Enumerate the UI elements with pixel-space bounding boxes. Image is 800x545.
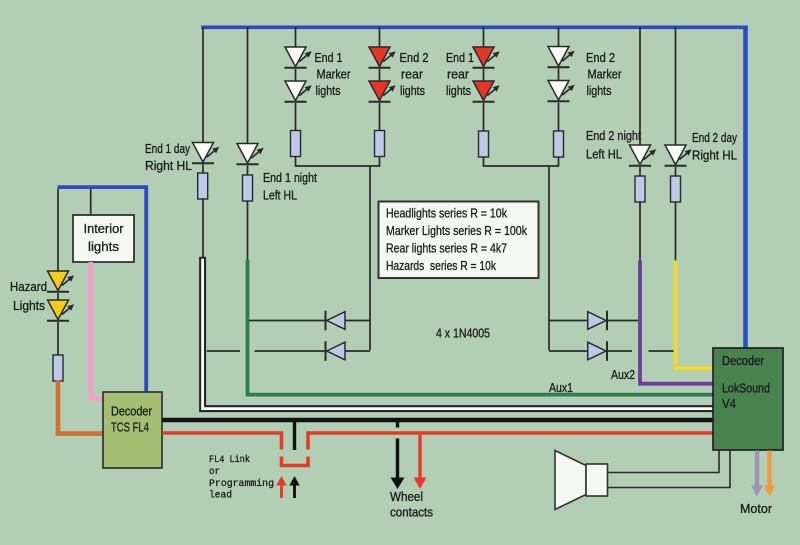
label Interior (84, 221, 125, 236)
arrow black FL4 link (289, 476, 299, 498)
label Left HL (End 2 night) (586, 147, 622, 162)
svg-text:Decoder: Decoder (111, 404, 153, 419)
label Right HL (End 1 day) (145, 158, 192, 173)
wire LED F to resistor (558, 103, 560, 132)
svg-text:lights: lights (446, 83, 471, 98)
svg-text:4 x 1N4005: 4 x 1N4005 (436, 326, 490, 341)
diode D2 1N4005 (to white) (326, 341, 346, 361)
wire connector E-F resistors (484, 165, 559, 167)
LED hazard lower (47, 300, 74, 321)
svg-text:Aux2: Aux2 (611, 367, 635, 382)
wire green Aux1 (to LokSound) (248, 260, 714, 395)
wire column B drop from blue bus (247, 27, 249, 144)
svg-text:End 2 night: End 2 night (586, 128, 641, 143)
label Decoder (LokSound) (722, 353, 765, 368)
LED End 1 marker lower (285, 81, 312, 102)
LED End 1 night Left HL (237, 144, 264, 165)
wire column E drop from blue bus (483, 27, 485, 47)
svg-text:Decoder: Decoder (722, 353, 765, 368)
wire diode line to purple Aux2 (549, 320, 638, 322)
wire resistor B to green wire (247, 201, 249, 262)
wire between rear LEDs D (379, 69, 381, 81)
label contacts (390, 506, 433, 520)
resistor R series 4k7 (End 2 rear) (375, 131, 385, 157)
wire LED D to resistor (379, 103, 381, 131)
resistor R series 10k (hazards) (53, 355, 63, 381)
label FL4 Link (209, 454, 250, 466)
LED End 2 night Left HL (629, 145, 656, 166)
label TCS FL4 (111, 420, 149, 435)
wire purple Aux2 (to LokSound) (640, 261, 713, 384)
wire resistor D to connector (379, 156, 381, 167)
wire column F drop from blue bus (558, 27, 560, 47)
arrow motor gray (751, 451, 763, 497)
svg-text:V4: V4 (722, 396, 736, 411)
label Marker (End 1) (317, 67, 352, 82)
wire diode line to yellow, right of purple hop (649, 350, 675, 352)
diode D4 1N4005 (to yellow) (588, 341, 607, 361)
label End 2 (marker) (586, 50, 615, 65)
wire drop C/D junction to diodes (369, 166, 371, 350)
wire resistor E to connector (483, 157, 485, 167)
wire speaker lower (608, 451, 731, 488)
LED End 1 rear upper (473, 47, 500, 68)
wire between marker LEDs F (558, 69, 560, 81)
svg-text:or: or (209, 466, 220, 478)
wire column A drop from blue bus (202, 27, 204, 143)
svg-text:Marker Lights series R = 100k: Marker Lights series R = 100k (386, 223, 527, 238)
label Aux1 (549, 380, 573, 395)
label Hazard (10, 279, 47, 294)
svg-text:Interior: Interior (84, 221, 125, 236)
svg-text:End 2: End 2 (400, 50, 429, 65)
box resistor value rules (379, 202, 539, 279)
value label Rear lights series R = 4k7 (386, 241, 507, 256)
label rear (End 1) (447, 67, 470, 82)
svg-text:Left HL: Left HL (586, 147, 622, 162)
diode D1 1N4005 (to Aux1) (326, 311, 346, 331)
wire LED H to resistor (675, 167, 677, 176)
LED hazard upper (47, 271, 74, 292)
value label Headlights series R = 10k (386, 206, 507, 221)
svg-text:Headlights series R = 10k: Headlights series R = 10k (386, 206, 507, 221)
box Interior lights (73, 215, 134, 262)
wire resistor G to purple wire (639, 202, 641, 263)
svg-text:Programming: Programming (209, 478, 274, 490)
arrow black wheel contact (391, 439, 405, 490)
wire resistor A to white wire (202, 199, 204, 259)
wire column H drop from blue bus (675, 27, 677, 145)
LED End 2 marker lower (548, 81, 575, 102)
svg-text:rear: rear (447, 67, 470, 82)
wire blue loop to interior lights box (90, 189, 92, 215)
svg-text:Aux1: Aux1 (549, 380, 573, 395)
decoder TCS FL4 (103, 392, 162, 468)
speaker body (586, 464, 608, 496)
LED End 1 rear lower (473, 81, 500, 102)
resistor R series 10k (End 1 night) (243, 175, 253, 201)
wire LED E to resistor (483, 103, 485, 131)
wire between hazard LEDs (57, 293, 59, 300)
label lights (interior) (88, 239, 119, 254)
label rear (End 2) (401, 67, 424, 82)
wire connector C-D resistors (296, 165, 380, 167)
LED End 2 rear upper (369, 47, 396, 68)
resistor R series 10k (End 1 day) (198, 173, 208, 199)
wire black drop to wheel contacts (above red hop) (396, 422, 399, 428)
speaker cone (555, 451, 586, 510)
LED End 1 day Right HL (192, 143, 219, 164)
wire black track (TCS to LokSound) (162, 418, 713, 423)
label LokSound (722, 381, 770, 396)
resistor R series 100k (End 2 marker) (554, 131, 564, 157)
wire pink interior lights to TCS FL4 (91, 262, 103, 399)
resistor R series 100k (End 1 marker) (291, 131, 301, 157)
wire white (End1 day headlight to LokSound) outline (203, 257, 713, 409)
svg-text:End 1: End 1 (446, 50, 474, 65)
svg-text:lead: lead (209, 490, 232, 502)
resistor R series 4k7 (End 1 rear) (479, 131, 489, 157)
svg-text:Lights: Lights (13, 298, 45, 313)
value label Marker Lights series R = 100k (386, 223, 527, 238)
svg-text:Rear lights series R = 4k7: Rear lights series R = 4k7 (386, 241, 507, 256)
svg-text:FL4 Link: FL4 Link (209, 454, 250, 466)
wire yellow (End2 day to LokSound) (676, 261, 714, 369)
svg-text:End 1: End 1 (315, 50, 343, 65)
wire column D drop from blue bus (379, 27, 381, 47)
wire between marker LEDs C (295, 69, 297, 81)
wire diode line to yellow, left of purple hop (549, 350, 632, 352)
svg-text:Marker: Marker (317, 67, 352, 82)
wire diode line to green Aux1 (249, 320, 370, 322)
label or (209, 466, 220, 478)
wire orange hazard to TCS FL4 (58, 381, 103, 434)
label End 2 day (692, 130, 737, 145)
svg-text:End 1 day: End 1 day (145, 141, 190, 156)
label Right HL (End 2 day) (692, 148, 737, 163)
wire between rear LEDs E (483, 69, 485, 81)
svg-text:Right HL: Right HL (692, 148, 737, 163)
label V4 (722, 396, 736, 411)
wire LED G to resistor (639, 167, 641, 176)
svg-text:End 2: End 2 (586, 50, 615, 65)
arrow red wheel contact (414, 435, 427, 489)
label Wheel (390, 490, 423, 504)
label Decoder (TCS) (111, 404, 153, 419)
label Left HL (End 1 night) (263, 188, 297, 203)
wire diode line to white wire, right of green hop (255, 350, 371, 352)
svg-text:lights: lights (400, 83, 425, 98)
label End 2 (rear) (400, 50, 429, 65)
wire red link plug loop (282, 457, 309, 466)
wire blue common bus (top, to LokSound) (201, 26, 747, 350)
svg-text:lights: lights (587, 83, 612, 98)
LED End 2 day Right HL (665, 145, 692, 166)
wire resistor H to yellow wire (675, 202, 677, 263)
label End 1 (rear) (446, 50, 474, 65)
label lights (End 1 rear) (446, 83, 471, 98)
decoder LokSound V4 (713, 348, 783, 450)
resistor R series 10k (End 2 day) (671, 176, 681, 202)
wire red track from TCS to link (162, 433, 282, 450)
svg-text:TCS FL4: TCS FL4 (111, 420, 149, 435)
svg-text:Hazards series R = 10k: Hazards series R = 10k (386, 258, 496, 273)
label End 1 day (145, 141, 190, 156)
LED End 2 marker upper (548, 47, 575, 68)
wire blue TCS common (to TCS FL4) (58, 187, 147, 392)
wire LED B to resistor (247, 166, 249, 176)
arrow motor orange (764, 451, 776, 497)
wire speaker upper (608, 451, 720, 473)
svg-text:lights: lights (88, 239, 119, 254)
label Motor (740, 501, 773, 516)
wire resistor C to connector (295, 156, 297, 167)
wire blue loop to hazard LEDs (57, 189, 59, 271)
svg-text:Left HL: Left HL (263, 188, 297, 203)
label Marker (End 2) (588, 67, 623, 82)
label Aux2 (611, 367, 635, 382)
label lights (End 2 rear) (400, 83, 425, 98)
svg-text:contacts: contacts (390, 506, 433, 520)
wire LED A to resistor (202, 165, 204, 174)
wire column G drop from blue bus (639, 27, 641, 145)
arrow red FL4 link (276, 476, 286, 498)
diode D3 1N4005 (to Aux2) (588, 311, 607, 331)
label Programming (209, 478, 274, 490)
label lights (End 2 marker) (587, 83, 612, 98)
label lead (209, 490, 232, 502)
wire diode line to white wire, left of green hop (207, 350, 240, 352)
wire hazard LEDs to resistor (57, 322, 59, 355)
svg-text:rear: rear (401, 67, 424, 82)
value label Hazards series R = 10k (386, 258, 496, 273)
svg-text:Motor: Motor (740, 501, 773, 516)
resistor R series 10k (End 2 night) (635, 176, 645, 202)
svg-text:Wheel: Wheel (390, 490, 423, 504)
label End 1 night (263, 170, 317, 185)
svg-text:lights: lights (316, 83, 341, 98)
label Lights (hazard) (13, 298, 45, 313)
wire red track from link to LokSound (308, 433, 713, 450)
wire resistor F to connector (558, 157, 560, 167)
wire black stub at FL4 link (293, 420, 296, 450)
svg-text:Hazard: Hazard (10, 279, 47, 294)
label lights (End 1 marker) (316, 83, 341, 98)
wire drop E/F junction to diodes (548, 166, 550, 350)
wire column C drop from blue bus (295, 27, 297, 47)
LED End 2 rear lower (369, 81, 396, 102)
svg-text:End 2 day: End 2 day (692, 130, 737, 145)
label End 1 (marker) (315, 50, 343, 65)
label 4 x 1N4005 (436, 326, 490, 341)
svg-text:LokSound: LokSound (722, 381, 770, 396)
svg-text:Right HL: Right HL (145, 158, 192, 173)
LED End 1 marker upper (285, 47, 312, 68)
svg-text:Marker: Marker (588, 67, 623, 82)
wire LED C to resistor (295, 103, 297, 131)
label End 2 night (586, 128, 641, 143)
svg-text:End 1 night: End 1 night (263, 170, 317, 185)
